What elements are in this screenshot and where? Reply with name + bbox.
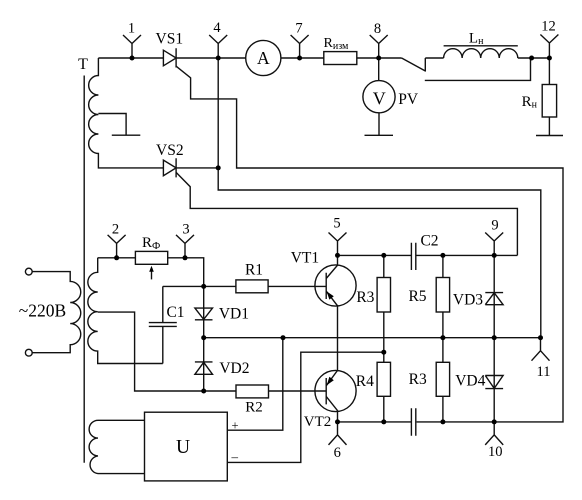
svg-text:+: + xyxy=(231,418,238,432)
svg-text:3: 3 xyxy=(182,221,189,237)
svg-text:RФ: RФ xyxy=(142,235,160,252)
svg-text:C1: C1 xyxy=(166,304,184,321)
svg-text:2: 2 xyxy=(112,221,119,237)
svg-text:~220В: ~220В xyxy=(19,301,66,321)
svg-text:V: V xyxy=(373,89,386,109)
svg-text:R1: R1 xyxy=(245,261,263,278)
svg-text:VD3: VD3 xyxy=(453,291,483,308)
svg-text:8: 8 xyxy=(374,21,381,37)
svg-text:–: – xyxy=(231,449,239,464)
svg-text:T: T xyxy=(78,56,88,73)
svg-text:R3: R3 xyxy=(356,289,374,306)
svg-text:VS2: VS2 xyxy=(156,142,184,159)
svg-text:A: A xyxy=(257,48,270,68)
svg-text:12: 12 xyxy=(541,18,556,34)
svg-text:Rизм: Rизм xyxy=(324,36,350,52)
svg-text:4: 4 xyxy=(213,20,221,36)
svg-text:C2: C2 xyxy=(420,233,438,250)
svg-text:6: 6 xyxy=(334,445,341,461)
svg-text:5: 5 xyxy=(333,215,340,231)
svg-text:PV: PV xyxy=(398,91,419,108)
svg-text:1: 1 xyxy=(128,20,135,36)
svg-text:VT2: VT2 xyxy=(304,414,332,430)
svg-text:Rн: Rн xyxy=(522,94,538,111)
svg-text:7: 7 xyxy=(295,20,302,36)
svg-text:10: 10 xyxy=(488,444,503,460)
svg-text:U: U xyxy=(176,437,190,458)
svg-text:R3: R3 xyxy=(409,371,427,388)
svg-text:VD4: VD4 xyxy=(455,372,485,389)
svg-text:VD2: VD2 xyxy=(219,360,249,377)
svg-text:VS1: VS1 xyxy=(156,30,184,47)
svg-text:R5: R5 xyxy=(408,288,426,305)
svg-text:11: 11 xyxy=(537,364,551,380)
svg-text:VT1: VT1 xyxy=(291,250,319,267)
svg-text:Lн: Lн xyxy=(469,31,484,48)
svg-text:R4: R4 xyxy=(356,373,374,390)
svg-text:VD1: VD1 xyxy=(219,306,249,323)
svg-text:R2: R2 xyxy=(245,400,263,416)
svg-text:9: 9 xyxy=(491,217,498,233)
